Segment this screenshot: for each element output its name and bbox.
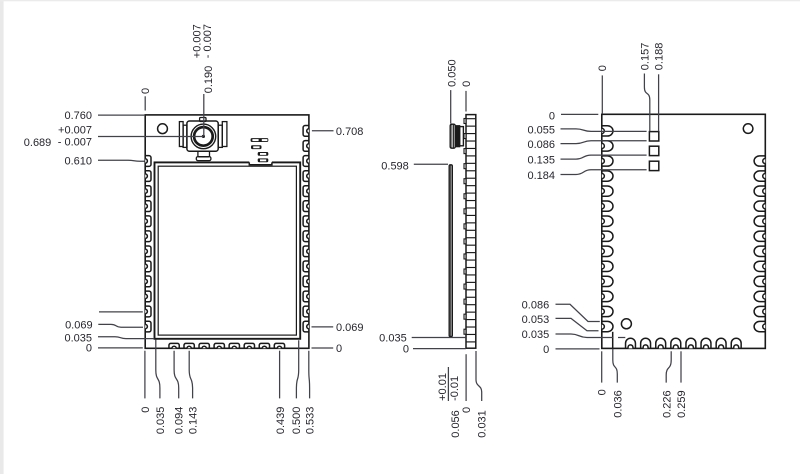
svg-text:0.190: 0.190 <box>203 66 215 94</box>
dim 0.035 side leader <box>412 337 466 339</box>
dim 0.035 bottom tick <box>156 340 160 399</box>
dim 0 side bottom tick <box>465 354 467 401</box>
svg-text:0: 0 <box>549 111 555 123</box>
bottom view: left edge castellation pads <box>602 126 613 332</box>
dim 0 side leader <box>413 348 466 350</box>
side view: PCB body <box>466 115 476 349</box>
dim 0 top tick <box>144 96 146 110</box>
svg-text:0.157: 0.157 <box>639 43 651 71</box>
side view: castellation plating rungs <box>466 119 476 342</box>
svg-text:0: 0 <box>597 65 609 71</box>
dim 0.086 lower leader <box>556 304 600 321</box>
svg-text:0.053: 0.053 <box>522 314 550 326</box>
dim 0.053 leader <box>556 318 599 330</box>
top view: fiducial hole <box>158 124 168 134</box>
svg-text:0.031: 0.031 <box>477 410 489 438</box>
svg-text:0.439: 0.439 <box>275 407 287 435</box>
dim 0.094 tick <box>174 351 179 399</box>
svg-text:0.035: 0.035 <box>379 333 407 345</box>
svg-text:0: 0 <box>140 407 152 413</box>
dim 0 bv left leader <box>561 113 598 115</box>
svg-text:0.143: 0.143 <box>187 407 199 435</box>
dim 0 bottom tick <box>144 351 146 399</box>
dim 0.069 right leader <box>312 326 334 328</box>
dim 0.190 tick <box>203 94 205 136</box>
dim 0 bv bottom tick <box>601 351 603 382</box>
notch reference leader <box>99 311 143 313</box>
svg-text:0.533: 0.533 <box>304 407 316 435</box>
dim 0.439 tick <box>279 351 281 399</box>
svg-text:0.035: 0.035 <box>155 407 167 435</box>
dim 0.086 leader <box>561 141 647 144</box>
top view: shield lid seam notch <box>249 161 272 165</box>
bottom view: hole top right <box>743 124 753 134</box>
bottom view: corner pad edge line <box>612 332 614 349</box>
dim 0.031 leader <box>476 351 482 401</box>
svg-text:0: 0 <box>403 344 409 356</box>
top view: SMD pads near connector <box>251 138 269 162</box>
svg-text:0.188: 0.188 <box>654 43 666 71</box>
top view: U.FL antenna connector <box>179 118 227 161</box>
dim 0.188 leader <box>658 74 660 131</box>
dim 0.689 leader <box>98 136 203 138</box>
svg-text:0.598: 0.598 <box>381 161 409 173</box>
top view: shield can outer edge <box>155 162 301 338</box>
svg-text:0.055: 0.055 <box>527 124 555 136</box>
dim 0 left leader <box>98 347 143 349</box>
svg-text:0.036: 0.036 <box>612 390 624 418</box>
svg-text:0.094: 0.094 <box>174 407 186 435</box>
bottom view: module body outline <box>602 114 766 348</box>
dim 0.708 leader <box>312 130 334 132</box>
svg-text:0.708: 0.708 <box>336 126 364 138</box>
dim 0.500 tick <box>296 340 298 398</box>
dim 0 side top tick <box>465 91 467 112</box>
svg-text:0: 0 <box>86 343 92 355</box>
svg-text:0: 0 <box>140 88 152 94</box>
svg-text:0.610: 0.610 <box>64 155 92 167</box>
top view: bottom edge castellations <box>169 343 285 348</box>
dim 0.259 tick <box>680 351 682 382</box>
top view: right edge castellations <box>303 126 309 332</box>
dim 0.226 tick <box>666 351 671 382</box>
bottom view: right edge castellation pads <box>754 156 765 332</box>
svg-text:0.069: 0.069 <box>336 322 364 334</box>
dim 0.143 tick <box>189 351 192 399</box>
svg-text:0.259: 0.259 <box>676 390 688 418</box>
svg-text:0.226: 0.226 <box>661 390 673 418</box>
svg-text:0.689: 0.689 <box>24 137 52 149</box>
side view: U.FL connector profile <box>450 124 463 148</box>
svg-text:0.035: 0.035 <box>522 329 550 341</box>
dim 0.184 leader <box>561 170 647 175</box>
svg-text:0.086: 0.086 <box>522 300 550 312</box>
dim 0.610 leader <box>98 159 145 162</box>
top view: U.FL coax rings <box>191 124 216 149</box>
dim 0.035 left leader <box>98 337 154 339</box>
svg-text:0: 0 <box>461 81 473 87</box>
svg-text:0.050: 0.050 <box>447 59 459 87</box>
svg-text:0.135: 0.135 <box>527 155 555 167</box>
svg-text:0: 0 <box>543 344 549 356</box>
dim 0.056 tick <box>447 367 449 401</box>
svg-text:0.184: 0.184 <box>527 170 555 182</box>
svg-text:0.056: 0.056 <box>450 410 462 438</box>
svg-text:0.500: 0.500 <box>291 407 303 435</box>
dim 0.760 leader <box>98 114 144 116</box>
svg-text:+0.01: +0.01 <box>437 373 449 401</box>
dim 0.157 leader <box>644 74 649 132</box>
svg-text:0.760: 0.760 <box>64 110 92 122</box>
svg-text:0: 0 <box>597 389 609 395</box>
bottom view: bottom edge castellation pads <box>626 338 742 348</box>
side view: castellation side bumps <box>464 119 466 335</box>
dim 0.135 leader <box>561 155 647 159</box>
side view: shield can profile <box>449 165 452 337</box>
svg-text:0: 0 <box>461 407 473 413</box>
svg-text:- 0.007: - 0.007 <box>58 137 92 149</box>
top view: left edge castellations <box>145 156 151 332</box>
top view: module body outline <box>145 115 309 348</box>
svg-text:- 0.007: - 0.007 <box>202 24 214 58</box>
svg-text:+0.007: +0.007 <box>58 125 92 137</box>
top view: shield can inner edge <box>158 166 296 335</box>
svg-text:0.069: 0.069 <box>65 320 93 332</box>
dim 0.035 bv leader <box>556 334 614 338</box>
svg-text:0.086: 0.086 <box>527 139 555 151</box>
dim 0.055 leader <box>561 129 647 132</box>
dim 0.069 left leader <box>98 324 143 327</box>
bottom view: hole bottom left <box>621 319 631 329</box>
dim 0.533 tick <box>308 351 311 399</box>
dim 0.050 tick <box>450 90 452 123</box>
dim 0.036 tick <box>613 349 618 383</box>
bottom view: thermal pads row <box>649 132 658 171</box>
dim 0 right leader <box>312 347 334 349</box>
dim 0 bv top tick <box>601 75 603 113</box>
svg-text:-0.01: -0.01 <box>449 376 461 401</box>
dim 0.598 leader <box>414 163 448 165</box>
dim 0 bv lower leader <box>556 348 600 350</box>
svg-text:0: 0 <box>336 343 342 355</box>
